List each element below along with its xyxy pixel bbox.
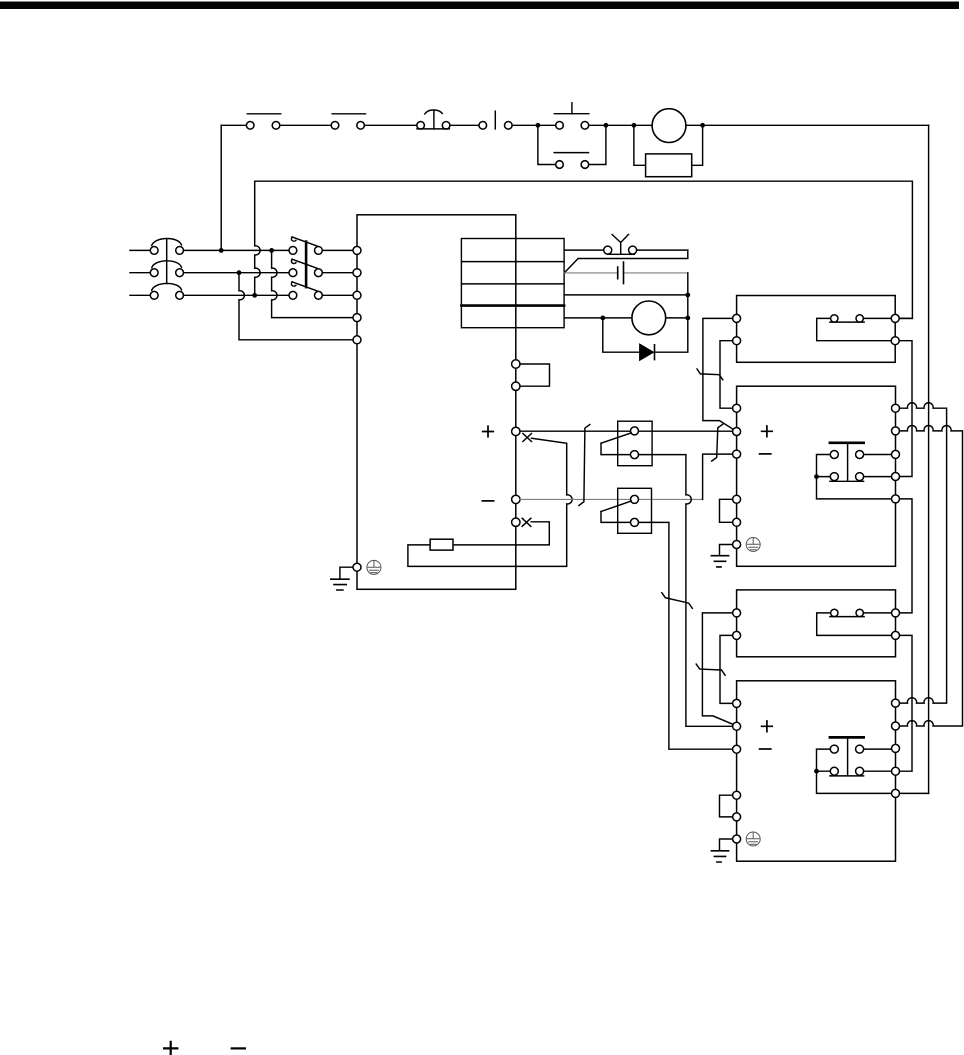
interface unit 1 <box>737 296 896 363</box>
node fan right <box>685 316 690 321</box>
wire unit1 rightA to control second line <box>899 317 912 319</box>
terminal amp2 right T3 <box>892 450 900 458</box>
contact self-hold aux <box>554 153 589 169</box>
magnetic contactor pole 3 <box>289 282 322 299</box>
wire amp2 T5 down to unit3 rightA <box>900 499 912 613</box>
wire unit3A to amp4 plus terminal <box>702 613 733 725</box>
label plus amp2 <box>762 426 773 437</box>
magnetic contactor pole 2 <box>289 259 322 276</box>
terminal amp2 ground <box>733 541 741 549</box>
wire control feed tap from L1 <box>220 125 222 250</box>
terminal amp2 plus <box>733 428 741 436</box>
terminal plus main unit <box>512 427 520 435</box>
connector marks at amp1 DC terminals <box>712 424 723 461</box>
contact discharge relay 2 <box>601 495 639 526</box>
terminal amp4 right T2 <box>892 722 900 730</box>
circuit breaker pole 3 <box>150 283 183 299</box>
wire control second line <box>255 181 913 318</box>
wire row L1 breaker to contactor <box>184 249 289 251</box>
terminal amp2 jumper lower <box>733 518 741 526</box>
wire unit1A to amp1 top terminal <box>703 318 733 429</box>
terminal amp4 jumper lower <box>733 813 741 821</box>
connector marks unit3-amp4 cable <box>696 664 725 675</box>
terminal amp4 ground <box>733 835 741 843</box>
terminal amp4 right T5 <box>892 789 900 797</box>
node L1 control tap <box>219 248 224 253</box>
wire L1 input stub <box>130 249 150 251</box>
wire row L2 breaker to contactor <box>184 272 289 274</box>
wire fan line <box>564 317 688 319</box>
jumper amp4 <box>720 795 733 817</box>
wire row L3 breaker to contactor <box>184 294 289 296</box>
terminal amp2 right T5 <box>892 495 900 503</box>
label minus bottom legend <box>232 1047 245 1049</box>
terminal L3 on unit <box>353 291 361 299</box>
servo amplifier unit 4 <box>737 681 896 861</box>
label minus amp4 <box>760 748 771 750</box>
wire surge absorber branch right <box>692 125 703 165</box>
wire self-hold branch left <box>538 125 556 164</box>
protective earth symbol amp2 <box>746 538 760 552</box>
wire L3 input stub <box>130 294 150 296</box>
protective earth symbol main unit <box>367 560 381 574</box>
pushbutton amp4 internal <box>814 737 891 793</box>
wire control line segments <box>221 124 928 126</box>
node L1 aux tap <box>269 248 274 253</box>
terminal unit3 right B <box>892 631 900 639</box>
wire L2 tap to terminal 5 (hops L3) <box>239 273 353 340</box>
node coil right <box>700 123 705 128</box>
wire fan branch upper <box>564 294 688 296</box>
terminal amp4 jumper upper <box>733 791 741 799</box>
discharge resistor <box>430 539 453 550</box>
terminal ground main unit <box>353 563 361 571</box>
terminal L2 on unit <box>353 269 361 277</box>
label plus bottom legend <box>164 1042 177 1055</box>
terminal unit1 right A <box>891 314 899 322</box>
main unit enclosure <box>357 215 516 590</box>
terminal amp2 right T4 <box>892 473 900 481</box>
wire motor power U loop (amp2 T1 to amp4 T1) <box>900 403 947 703</box>
interface unit 3 <box>737 590 896 657</box>
connector marks on relay cable <box>662 593 693 609</box>
wire row L1 contactor to unit terminal <box>322 249 353 251</box>
servo amplifier unit 2 <box>737 386 896 566</box>
terminal unit1 left A <box>733 314 741 322</box>
circuit breaker mechanical link <box>166 239 168 284</box>
wire L2 input stub <box>130 272 150 274</box>
wire relay1 to amp2 plus <box>639 455 733 727</box>
wire thermostat feed <box>564 249 688 251</box>
wire unit1B to amp1 terminal1 <box>720 341 733 409</box>
wire amp2 minus to DC minus <box>703 454 733 499</box>
wire surge absorber branch left <box>634 125 646 165</box>
wire motor power V loop (amp2 T2 to amp4 T2) <box>900 425 963 726</box>
wire discharge loop <box>408 438 572 566</box>
thermostat contact <box>604 234 637 254</box>
jumper amp2 <box>720 499 733 522</box>
terminal unit3 right A <box>892 609 900 617</box>
terminal unit1 left B <box>733 337 741 345</box>
wire self-hold branch right <box>589 125 606 164</box>
terminal amp4 right T4 <box>892 767 900 775</box>
wire row L2 contactor to unit terminal <box>322 272 353 274</box>
terminal amp2 right T2 <box>892 427 900 435</box>
wire amp2 ground <box>720 545 733 556</box>
label plus main unit <box>483 426 494 437</box>
wire unit3 rightB down to amp4 T4 <box>900 635 912 771</box>
fan motor <box>632 301 666 335</box>
wire unit3B to amp4 terminal1 <box>720 635 733 703</box>
wire capacitor line <box>564 272 688 274</box>
terminal amp2 L1 <box>733 404 741 412</box>
terminal L1 on unit <box>353 246 361 254</box>
magnetic contactor pole 1 <box>289 237 322 254</box>
terminal amp2 right T1 <box>892 404 900 412</box>
contact unit3 internal <box>817 609 892 635</box>
pushbutton amp2 internal <box>814 443 891 499</box>
label minus amp2 <box>760 453 771 455</box>
ground symbol amp2 <box>711 556 728 567</box>
terminal aux 5 on unit <box>353 336 361 344</box>
contact discharge relay 1 <box>601 427 639 459</box>
terminal amp4 T1 <box>733 699 741 707</box>
wire thermostat return <box>564 250 688 273</box>
wire diode branch <box>603 318 688 352</box>
terminal unit1 right B <box>891 337 899 345</box>
wire DC plus bus <box>520 430 733 432</box>
wire amp4 T5 to control bus <box>900 792 929 794</box>
circuit breaker pole 1 <box>150 239 183 255</box>
terminal unit3 left B <box>733 631 741 639</box>
node fan left <box>600 316 605 321</box>
protective earth symbol amp4 <box>746 832 760 846</box>
terminal minus main unit <box>512 495 520 503</box>
terminal amp4 plus <box>733 722 741 730</box>
wire ground terminal main unit <box>340 567 353 579</box>
magnetic contactor link bar <box>305 242 308 288</box>
node self-hold left <box>536 123 541 128</box>
relay contact box 1 <box>618 421 652 466</box>
wire control return to L3 (from y181 line, hops L1 and L2) <box>255 181 260 295</box>
terminal amp2 jumper upper <box>733 495 741 503</box>
relay contact box 2 <box>618 488 652 533</box>
terminal jumper pair right edge <box>512 360 550 391</box>
wire control bus right drop <box>928 125 930 793</box>
contact NC interlock 1 <box>246 114 280 129</box>
diode <box>639 343 654 361</box>
node L3 control return junction <box>252 293 257 298</box>
terminal board grid <box>461 239 564 328</box>
wire row L3 contactor to unit terminal <box>322 294 353 296</box>
wire amp4 ground <box>720 839 733 851</box>
terminal unit3 left A <box>733 609 741 617</box>
crimp mark X plus <box>523 434 532 442</box>
wire L1 tap to terminal 4 (hops L2 and L3) <box>272 250 353 317</box>
wire relay2 to amp2 minus <box>639 522 733 749</box>
header bar <box>0 2 959 10</box>
node self-hold right <box>604 123 609 128</box>
node fan upper <box>685 293 690 298</box>
circuit breaker pole 2 <box>150 261 183 277</box>
terminal discharge aux main unit <box>512 518 520 526</box>
terminal amp4 minus <box>733 745 741 753</box>
contactor coil MCC <box>652 109 686 143</box>
terminal amp2 minus <box>733 450 741 458</box>
wire unit1 rightB down to amp2 T4 <box>899 341 912 477</box>
capacitor <box>618 262 624 284</box>
terminal aux 4 on unit <box>353 314 361 322</box>
connector marks unit1-amp1 cable <box>697 369 723 380</box>
node L2 aux tap <box>237 270 242 275</box>
wire capacitor to fan drop <box>687 273 689 318</box>
contact unit1 internal <box>817 315 892 341</box>
label plus amp4 <box>762 721 773 732</box>
ground symbol main unit <box>331 579 349 590</box>
emergency stop pushbutton <box>417 110 450 129</box>
connector marks on DC bus cable <box>579 425 590 506</box>
terminal amp4 right T1 <box>892 699 900 707</box>
wire DC minus bus <box>520 498 703 500</box>
crimp mark X discharge <box>522 518 531 526</box>
label minus main unit <box>482 500 493 502</box>
ground symbol amp4 <box>711 851 728 862</box>
contact NC interlock 2 <box>331 114 365 129</box>
terminal amp4 right T3 <box>892 744 900 752</box>
contact stop pushbutton with bar <box>554 103 589 129</box>
surge absorber resistor <box>646 154 692 177</box>
node coil left <box>632 123 637 128</box>
start pushbutton NO <box>479 111 512 129</box>
